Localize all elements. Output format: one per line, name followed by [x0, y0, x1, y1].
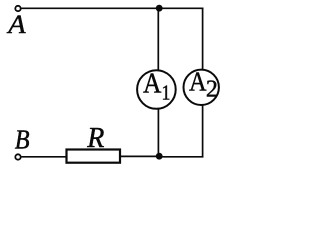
svg-text:1: 1	[162, 82, 171, 105]
terminal A	[15, 6, 20, 11]
ammeter A2	[184, 66, 219, 105]
svg-text:2: 2	[206, 77, 218, 103]
node bottom junction	[156, 153, 163, 160]
ammeter A1	[137, 67, 176, 109]
wire A2 bottom down to bottom-right corner	[202, 105, 204, 158]
wire bottom junction to bottom-right corner	[159, 156, 204, 158]
node top junction	[156, 5, 163, 12]
svg-text:B: B	[15, 124, 30, 154]
wire resistor to bottom junction	[120, 155, 159, 157]
svg-text:A: A	[189, 66, 207, 96]
wire A1 bottom down to bottom junction	[157, 109, 159, 157]
wire junction down to ammeter A1	[157, 8, 159, 71]
wire right vertical top corner down to ammeter A2	[202, 8, 204, 71]
terminal B	[15, 154, 20, 159]
svg-text:A: A	[6, 10, 26, 39]
resistor R	[67, 150, 121, 163]
wire B to resistor	[22, 156, 67, 158]
svg-text:A: A	[143, 67, 162, 99]
wire top horizontal A to top-right corner	[22, 7, 204, 9]
